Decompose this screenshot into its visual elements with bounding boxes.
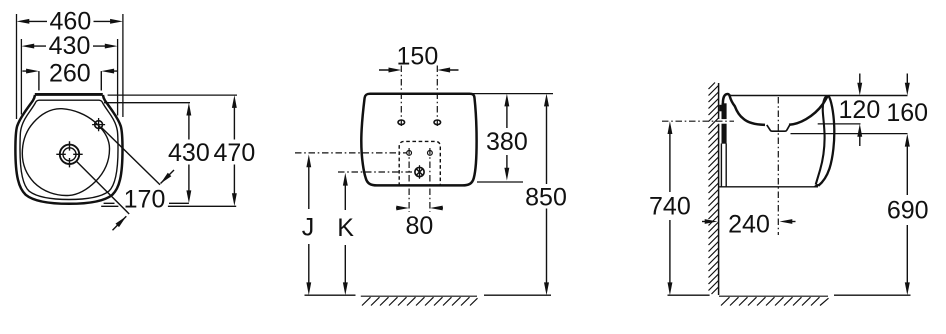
wall line (side view) bbox=[718, 83, 720, 295]
floor line left (front view) bbox=[305, 294, 356, 296]
dim K bbox=[337, 173, 354, 295]
dim 160 bbox=[886, 74, 928, 127]
svg-text:740: 740 bbox=[649, 193, 691, 221]
floor line right (side view) bbox=[834, 294, 911, 296]
extension line 160 bottom bbox=[791, 133, 908, 135]
centerline to drain bbox=[338, 171, 415, 173]
svg-text:80: 80 bbox=[405, 212, 433, 240]
mounting hole right bbox=[434, 120, 441, 125]
floor hatch (front view) bbox=[361, 296, 478, 305]
bowl contour (plan view) bbox=[22, 109, 109, 196]
fixing hole centerlines vertical bbox=[409, 148, 430, 212]
basin outline (front view) bbox=[361, 94, 476, 186]
dim 740 bbox=[649, 121, 691, 295]
fixing centerline horizontal (side view) bbox=[662, 120, 734, 122]
svg-text:380: 380 bbox=[486, 128, 528, 156]
vertical centerline (side view) bbox=[777, 97, 779, 235]
bottom extension line for 380 bbox=[477, 181, 523, 183]
dim 260 bbox=[22, 60, 117, 91]
leader line from tap hole bbox=[101, 127, 160, 185]
leader line from drain bbox=[76, 161, 129, 214]
hole centerlines bbox=[401, 66, 437, 129]
basin bottom line (side view) bbox=[719, 186, 818, 188]
dim 120 bbox=[839, 74, 881, 147]
svg-text:160: 160 bbox=[886, 99, 928, 127]
svg-text:470: 470 bbox=[214, 139, 256, 167]
dim 380 bbox=[486, 94, 528, 181]
front bottom tip (side view) bbox=[815, 184, 820, 186]
extension line 120 bottom bbox=[818, 123, 861, 125]
svg-text:690: 690 bbox=[887, 196, 929, 224]
dim 470 vertical (right of plan) bbox=[108, 95, 256, 206]
svg-text:170: 170 bbox=[124, 185, 166, 213]
floor line right (front view) bbox=[484, 294, 551, 296]
svg-text:430: 430 bbox=[168, 139, 210, 167]
basin rim top line + extension (side view) bbox=[729, 95, 907, 97]
drain fixing symbol bbox=[415, 165, 424, 179]
centerline to fixing holes bbox=[295, 152, 407, 154]
dim 150 bbox=[379, 43, 459, 73]
floor line left (side view) bbox=[668, 294, 710, 296]
mounting hole left bbox=[398, 120, 405, 125]
basin inner rim (plan view) bbox=[20, 100, 118, 199]
svg-text:120: 120 bbox=[839, 96, 881, 124]
back bump profile (side view) bbox=[723, 94, 765, 125]
svg-text:K: K bbox=[337, 214, 354, 242]
svg-text:J: J bbox=[302, 214, 315, 242]
front crescent outer line (side view) bbox=[818, 95, 834, 186]
arrow at tap-hole leader bbox=[161, 170, 175, 184]
drain symbol bbox=[56, 141, 82, 167]
dim 690 bbox=[887, 134, 929, 295]
drain trap (side view) bbox=[767, 125, 790, 132]
dim 240 bbox=[702, 210, 796, 238]
extension line 470-bottom (broken by 170 label) bbox=[101, 205, 236, 207]
svg-text:240: 240 bbox=[728, 210, 770, 238]
arrow at drain leader bbox=[113, 216, 127, 230]
basin outer outline (plan view) bbox=[15, 94, 122, 203]
hidden fixing plate (dashed) bbox=[399, 141, 440, 186]
basin back verticals (side view) bbox=[721, 144, 726, 187]
extension line 430-bottom (broken by 170 label) bbox=[104, 202, 189, 204]
dim 430 vertical (right of plan) bbox=[104, 103, 210, 204]
dim 460 bbox=[17, 8, 123, 36]
bowl curve (side view) bbox=[789, 96, 828, 125]
extension lines top dims bbox=[17, 14, 123, 119]
svg-text:260: 260 bbox=[49, 60, 91, 88]
svg-text:430: 430 bbox=[49, 32, 91, 60]
svg-text:850: 850 bbox=[525, 183, 567, 211]
svg-text:150: 150 bbox=[397, 43, 439, 71]
dim 80 bbox=[396, 206, 443, 240]
dim 430 bbox=[21, 32, 117, 60]
dim 850 bbox=[525, 94, 567, 296]
floor hatch (side view) bbox=[719, 296, 829, 305]
tap hole bbox=[92, 118, 105, 131]
wall hatch (side view) bbox=[709, 83, 719, 295]
top extension line (front view) bbox=[455, 93, 553, 95]
front crescent inner line (side view) bbox=[816, 96, 827, 185]
dim J bbox=[302, 154, 315, 295]
fixing hole right bbox=[428, 151, 433, 156]
fixing bracket (black) bbox=[719, 103, 726, 143]
fixing hole left bbox=[407, 151, 412, 156]
